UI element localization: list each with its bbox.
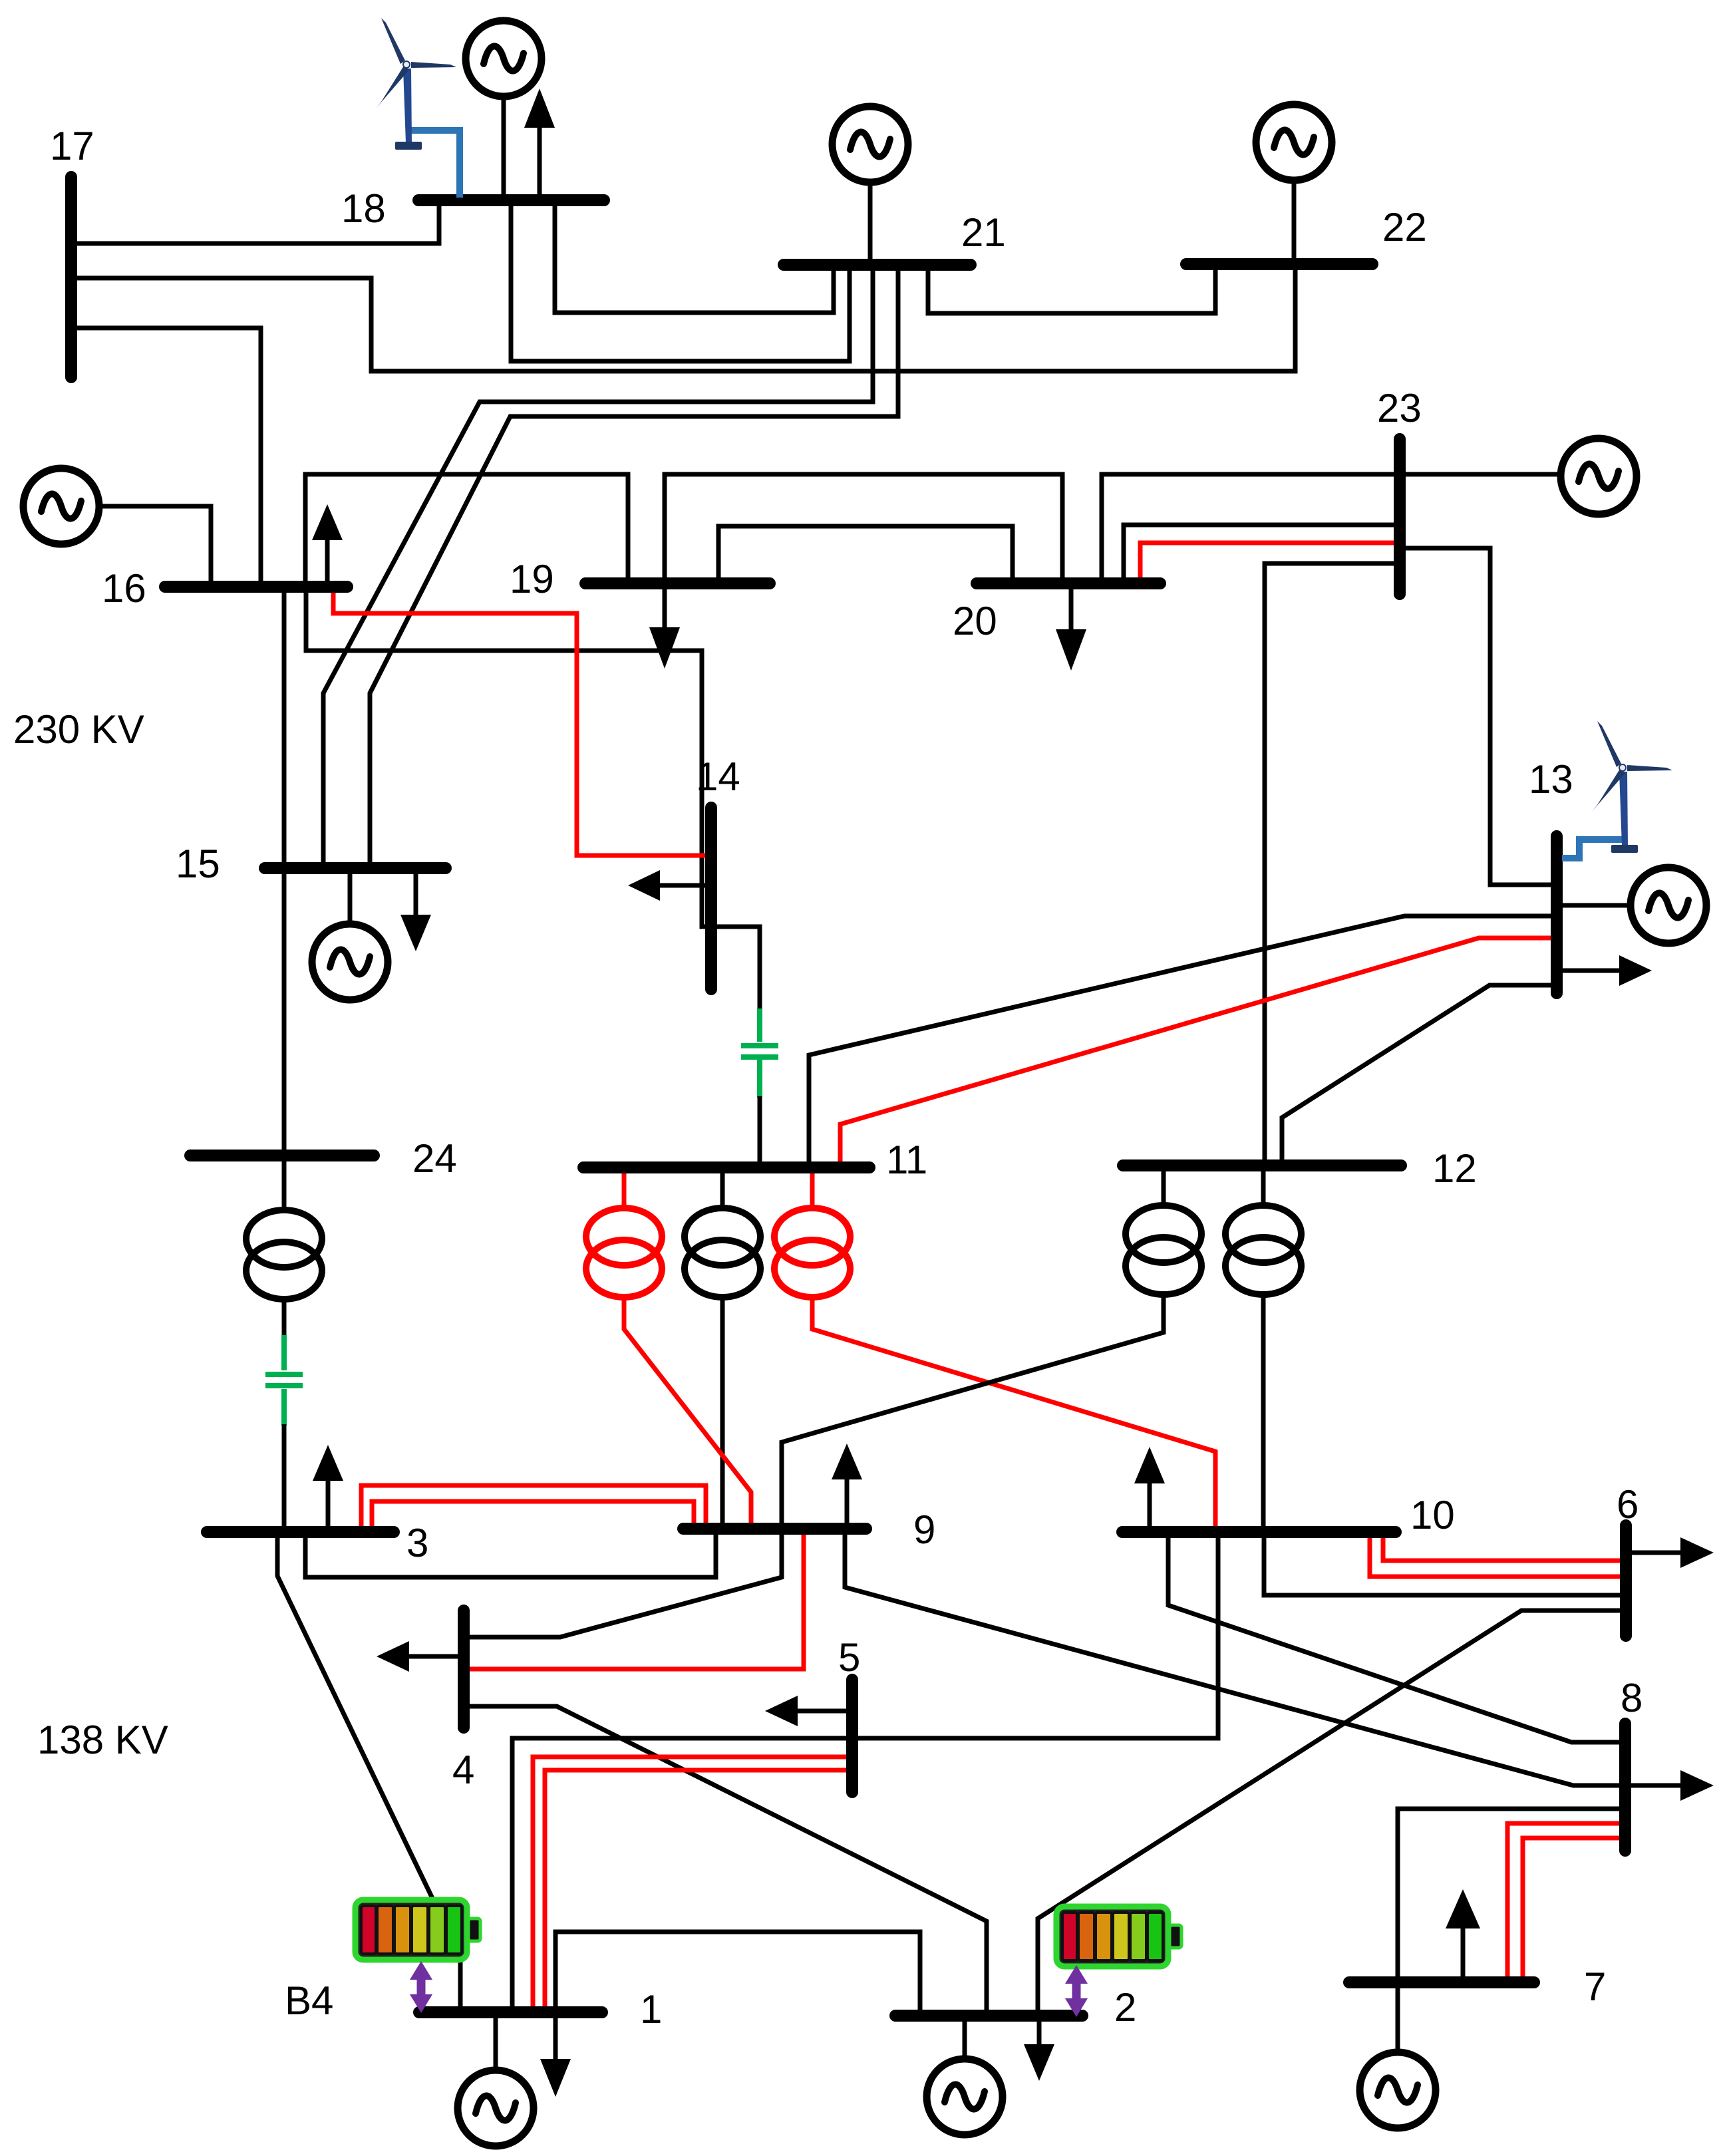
wire line 13-23 — [1402, 548, 1551, 885]
svg-text:24: 24 — [412, 1136, 457, 1181]
generator at bus 18 stem — [502, 97, 506, 198]
wire line 8-10 — [1168, 1535, 1621, 1742]
svg-text:7: 7 — [1584, 1964, 1606, 2009]
capacitor on line 11-14 plates — [741, 1043, 778, 1048]
transformer 10-12 — [1225, 1205, 1301, 1295]
wire line 8-9 — [845, 1532, 1621, 1785]
wire line 1-2 — [555, 1932, 920, 2012]
wire transformer 9-11 red added leads — [622, 1173, 627, 1207]
wire line 18-21 circuit B — [511, 204, 850, 361]
transformer 10-11 red — [774, 1208, 850, 1297]
wire line 2-4 — [468, 1706, 987, 2012]
wire line 3-9 red added circuit A — [361, 1485, 706, 1528]
generator at bus 16 stem — [100, 506, 211, 584]
bus 21 — [784, 259, 971, 271]
svg-text:19: 19 — [510, 557, 554, 601]
svg-text:6: 6 — [1617, 1482, 1639, 1527]
wire line 17-18 — [75, 204, 439, 243]
generator at bus 1 stem — [494, 2015, 498, 2070]
bus 9 — [683, 1523, 866, 1535]
wire line 19-20 circuit B — [665, 474, 1062, 581]
svg-text:11: 11 — [886, 1138, 927, 1182]
wire line 1-5 red added circuit B — [545, 1770, 848, 2009]
wire line 15-21 circuit B — [370, 268, 898, 865]
load arrow bus 14 left — [657, 883, 708, 888]
wind turbine link at bus 13 blue — [1562, 840, 1623, 858]
wire line 11-13 red added — [840, 938, 1551, 1162]
wire line 15-21 circuit A — [323, 268, 873, 865]
svg-text:23: 23 — [1377, 386, 1422, 430]
wire line 17-16 — [75, 328, 261, 584]
bus 10 — [1122, 1526, 1396, 1538]
load arrow bus 6 right — [1631, 1551, 1682, 1555]
svg-text:1: 1 — [640, 1987, 662, 2032]
load arrow bus 20 down — [1069, 586, 1074, 632]
bus 5 — [846, 1680, 858, 1792]
svg-text:9: 9 — [913, 1507, 935, 1552]
capacitor on link 24-3 plates — [265, 1372, 303, 1377]
svg-text:14: 14 — [696, 754, 740, 799]
wire line 1-3 — [277, 1537, 460, 2009]
battery at bus 2 — [1054, 1904, 1181, 1969]
load arrow bus 9 up — [845, 1477, 850, 1525]
svg-text:B4: B4 — [285, 1978, 333, 2023]
load arrow bus 13 right — [1562, 969, 1621, 973]
load arrow bus 15 down — [414, 871, 418, 917]
wire line 12-13 — [1282, 985, 1551, 1162]
bus 24 — [190, 1150, 374, 1161]
svg-text:10: 10 — [1410, 1493, 1455, 1537]
bus 20 — [977, 577, 1160, 589]
wire line 14-16 red added — [333, 589, 706, 855]
bus 2 — [895, 2010, 1082, 2022]
generator at bus 13 stem — [1562, 903, 1631, 908]
generator at bus 21 — [832, 106, 908, 182]
wire line 10-6 red added circuit B — [1370, 1537, 1621, 1577]
bus 22 — [1186, 258, 1372, 270]
generator at bus 22 stem — [1292, 181, 1297, 261]
transformer 9-11 black — [685, 1208, 760, 1297]
transformer 9-12 — [1126, 1205, 1201, 1295]
svg-text:138 KV: 138 KV — [37, 1718, 168, 1762]
wire line 19-20 circuit A — [718, 526, 1013, 581]
svg-text:12: 12 — [1432, 1146, 1477, 1191]
wire line 16-19 — [305, 474, 628, 584]
wire line 10-6 red added circuit A — [1383, 1537, 1621, 1561]
wire line 20-23 red added circuit — [1140, 543, 1397, 581]
load arrow bus 4 left — [407, 1654, 460, 1659]
wire line 4-9 black — [468, 1532, 782, 1637]
generator at bus 13 — [1631, 867, 1706, 943]
bus 4 — [458, 1611, 470, 1728]
bus 12 — [1123, 1159, 1401, 1171]
wire link 24-3 black segment to bus 3 — [282, 1424, 287, 1528]
load arrow bus 1 down — [553, 2015, 558, 2062]
bus 11 — [583, 1161, 869, 1173]
wire line 7-8 red added circuit B — [1523, 1838, 1621, 1979]
wire line 11-14 upper black segment — [716, 927, 760, 1010]
generator at bus 22 — [1256, 104, 1332, 180]
generator at bus 2 — [927, 2059, 1003, 2135]
generator at bus 21 stem — [868, 183, 873, 262]
wire line 2-6 — [1038, 1611, 1621, 2012]
generator at bus 1 — [458, 2070, 534, 2146]
wire line 11-14 lower black segment — [758, 1096, 762, 1162]
wire line 4-9 red added — [468, 1532, 804, 1669]
svg-text:8: 8 — [1621, 1676, 1643, 1720]
wire line 5-10 and 1-5 black through bus 5 — [512, 1535, 1218, 2009]
generator at bus 15 stem — [348, 871, 353, 924]
svg-text:18: 18 — [341, 186, 386, 231]
svg-text:21: 21 — [961, 210, 1006, 255]
wire line 7-8 red added circuit A — [1507, 1823, 1621, 1979]
wire transformer link 24-3 lower lead to capacitor — [282, 1299, 287, 1337]
transformer 9-11 red — [586, 1208, 662, 1297]
bus 18 — [418, 194, 604, 206]
svg-text:2: 2 — [1114, 1985, 1136, 2030]
wind turbine at bus 13 — [1592, 721, 1672, 853]
load arrow bus 16 up — [325, 538, 330, 584]
wire transformer 10-12 leads — [1261, 1170, 1266, 1204]
bus 19 — [585, 577, 770, 589]
load arrow bus 19 down — [663, 586, 667, 629]
wire line 15-24 — [282, 871, 287, 1150]
load arrow bus 18 up — [538, 126, 542, 198]
wire line 14-16 black — [306, 589, 760, 927]
wire line 10-6 black — [1264, 1535, 1621, 1595]
battery arrow at bus 2 purple — [1065, 1965, 1088, 2017]
generator at bus 18 — [466, 21, 542, 96]
bus 7 — [1349, 1976, 1534, 1988]
svg-text:5: 5 — [838, 1635, 860, 1680]
wire transformer 9-12 leads — [1162, 1170, 1166, 1204]
wire line 1-5 red added circuit A — [533, 1757, 848, 2009]
load arrow bus 5 left — [796, 1709, 848, 1714]
generator at bus 16 — [23, 468, 99, 544]
generator at bus 7 stem — [1396, 1985, 1400, 2052]
load arrow bus 8 right — [1631, 1783, 1682, 1788]
wire line 20-23 circuit A and generator-23 lead — [1102, 474, 1561, 581]
wire line 11-13 black — [809, 916, 1551, 1162]
wire line 21-22 — [928, 267, 1215, 313]
svg-text:15: 15 — [176, 842, 220, 886]
wire transformer link 24-3 upper lead — [282, 1161, 287, 1212]
svg-text:230 KV: 230 KV — [13, 707, 144, 752]
svg-text:4: 4 — [452, 1748, 474, 1792]
wire transformer 10-11 red added leads — [810, 1173, 815, 1207]
wire line 3-9 red added circuit B — [372, 1501, 694, 1528]
battery B4 at bus 1 — [353, 1897, 480, 1962]
svg-text:16: 16 — [102, 566, 146, 611]
svg-text:17: 17 — [50, 124, 94, 168]
svg-text:13: 13 — [1529, 757, 1573, 802]
bus 16 — [165, 581, 347, 593]
capacitor on line 11-14 green leads — [757, 1008, 762, 1042]
load arrow bus 10 up — [1148, 1481, 1152, 1528]
wire line 17-22 — [75, 267, 1295, 371]
svg-text:20: 20 — [953, 599, 997, 643]
load arrow bus 7 up — [1461, 1926, 1466, 1979]
generator at bus 23 — [1561, 438, 1637, 514]
wind turbine at bus 18 — [376, 18, 456, 150]
wire line 20-23 circuit B — [1124, 525, 1397, 581]
generator at bus 2 stem — [963, 2018, 967, 2059]
wire line 3-9 black — [305, 1532, 716, 1577]
wire line 12-23 — [1265, 563, 1397, 1162]
transformer 24-3 — [246, 1210, 322, 1299]
load arrow bus 2 down — [1037, 2018, 1042, 2047]
bus 13 — [1551, 836, 1563, 993]
battery arrow at bus 1 purple — [410, 1961, 432, 2013]
wire line 15-16 — [282, 584, 287, 865]
svg-text:3: 3 — [406, 1521, 428, 1565]
bus 17 — [65, 177, 77, 377]
bus 14 — [705, 808, 717, 989]
wire line 18-21 circuit A — [555, 204, 834, 313]
bus 8 — [1619, 1724, 1631, 1851]
wire transformer 9-11 black column — [720, 1173, 725, 1207]
generator at bus 7 — [1360, 2052, 1436, 2128]
bus 3 — [207, 1526, 394, 1538]
bus 6 — [1620, 1525, 1632, 1636]
load arrow bus 3 up — [326, 1478, 331, 1528]
bus 23 — [1394, 439, 1406, 594]
bus 15 — [265, 862, 446, 874]
generator at bus 15 — [312, 924, 388, 1000]
wind turbine link at bus 18 blue — [407, 130, 460, 198]
svg-text:22: 22 — [1382, 205, 1427, 249]
capacitor on link 24-3 green leads — [281, 1335, 287, 1370]
bus 1 — [419, 2006, 602, 2018]
wire line 7-8 black — [1398, 1809, 1621, 1979]
